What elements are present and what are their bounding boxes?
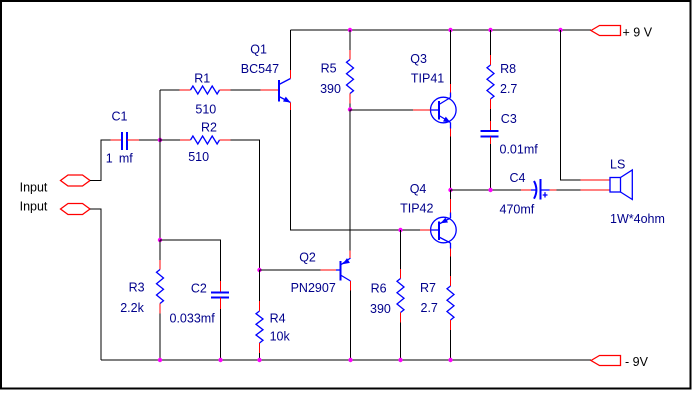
transistor Q3 <box>410 52 456 136</box>
wire node to Q3 base <box>350 109 413 111</box>
junction output node at Q3/Q4 <box>448 188 452 192</box>
wire node down to Q2 emitter <box>349 110 351 251</box>
svg-text:C1: C1 <box>112 110 128 124</box>
svg-text:BC547: BC547 <box>241 62 279 76</box>
svg-text:Q1: Q1 <box>250 42 267 56</box>
capacitor C4 <box>500 171 557 217</box>
wire input1 to C1 <box>90 140 111 181</box>
svg-text:R4: R4 <box>270 312 286 326</box>
svg-text:510: 510 <box>188 150 209 164</box>
svg-text:Input: Input <box>20 200 48 214</box>
svg-text:LS: LS <box>610 158 625 172</box>
junction R7 bottom on -9V rail <box>448 358 452 362</box>
svg-text:PN2907: PN2907 <box>291 281 336 295</box>
svg-text:R1: R1 <box>194 72 210 86</box>
junction C3 bottom on output rail <box>488 188 492 192</box>
svg-text:Input: Input <box>20 181 48 195</box>
svg-text:Q3: Q3 <box>410 52 427 66</box>
resistor R2 <box>160 121 231 165</box>
wire input2 to -9V rail <box>90 209 101 360</box>
capacitor C1 <box>106 110 139 166</box>
junction R3 bottom on -9V rail <box>158 358 162 362</box>
capacitor C3 <box>481 112 539 156</box>
wire Q1 emitter down and right to Q4 base <box>291 110 421 230</box>
svg-text:TIP42: TIP42 <box>400 201 433 215</box>
wire Q4 emitter up to output node <box>450 190 452 199</box>
svg-text:1W*4ohm: 1W*4ohm <box>610 212 665 226</box>
wire C1 to node A <box>139 139 160 141</box>
wire -9V bottom rail <box>101 359 591 361</box>
power flag -9V <box>591 355 649 369</box>
svg-text:1 mf: 1 mf <box>106 151 134 165</box>
node A junction (C1/R1/R2/R3 column) <box>158 138 162 142</box>
wire output rail to C4 <box>451 189 522 191</box>
junction R6 bottom on -9V rail <box>398 358 402 362</box>
resistor R1 <box>160 72 231 117</box>
junction node A2 (R3/C2 branch) <box>158 238 162 242</box>
junction C2 bottom on -9V rail <box>218 358 222 362</box>
wire C3 to output rail <box>490 144 492 190</box>
capacitor C2 <box>170 281 230 325</box>
svg-text:Q2: Q2 <box>299 251 316 265</box>
svg-text:R8: R8 <box>500 62 516 76</box>
input port flag 1 <box>20 175 90 195</box>
wire R7 to -9V rail <box>450 330 452 360</box>
svg-text:10k: 10k <box>270 330 291 344</box>
resistor R3 <box>120 240 163 315</box>
resistor R7 <box>420 276 454 330</box>
svg-text:R5: R5 <box>321 62 337 76</box>
wire C2 to -9V rail <box>220 309 222 360</box>
svg-text:- 9V: - 9V <box>625 355 649 369</box>
junction R6 top on Q4 base wire <box>398 228 402 232</box>
speaker LS <box>610 158 665 226</box>
input port flag 2 <box>20 200 90 215</box>
wire +9V rail down to speaker top lead <box>561 30 581 180</box>
wire Q3 emitter to output node <box>450 137 452 191</box>
wire R8 to C3 <box>490 109 492 121</box>
svg-text:R7: R7 <box>420 281 436 295</box>
junction Q3 collector on +9V rail <box>448 28 452 32</box>
wire R2 right to node B <box>231 140 260 270</box>
wire Q2 collector to -9V rail <box>350 291 352 361</box>
wire node B to Q2 base <box>260 269 321 271</box>
wire +9V rail to Q3 collector <box>450 30 452 84</box>
svg-text:+ 9 V: + 9 V <box>623 26 653 40</box>
wire +9V top rail <box>291 29 592 31</box>
resistor R6 <box>370 230 404 323</box>
wire node A2 to C2 top <box>160 240 221 281</box>
svg-text:390: 390 <box>320 82 341 96</box>
junction R4 bottom on -9V rail <box>257 358 261 362</box>
speaker lead bottom (red) <box>581 189 611 191</box>
wire node A vertical column x=160 <box>159 90 161 240</box>
junction R8 top on +9V rail <box>488 28 492 32</box>
wire R4 to -9V rail <box>259 353 261 360</box>
wire Q4 collector to R7 <box>450 257 452 277</box>
svg-text:390: 390 <box>370 302 391 316</box>
wire R5 bottom to junction <box>349 104 351 110</box>
junction R5 top on +9V rail <box>348 28 352 32</box>
svg-text:2.7: 2.7 <box>421 301 438 315</box>
junction R5 bottom node <box>348 107 352 111</box>
svg-text:Q4: Q4 <box>410 182 427 196</box>
svg-text:2.7: 2.7 <box>500 82 517 96</box>
svg-text:2.2k: 2.2k <box>120 301 144 315</box>
speaker lead top (red) <box>581 179 611 181</box>
svg-text:C4: C4 <box>510 171 526 185</box>
wire R1 to Q1 base <box>231 89 261 91</box>
resistor R8 <box>487 30 517 109</box>
wire Q1 collector to +9V rail <box>290 30 292 70</box>
resistor R5 <box>320 30 353 104</box>
svg-text:R2: R2 <box>201 121 217 135</box>
svg-text:470mf: 470mf <box>500 203 535 217</box>
junction speaker column on +9V rail <box>558 28 562 32</box>
svg-text:0.033mf: 0.033mf <box>170 311 216 325</box>
svg-text:C2: C2 <box>191 282 207 296</box>
svg-text:0.01mf: 0.01mf <box>500 142 539 156</box>
svg-text:R6: R6 <box>371 282 387 296</box>
resistor R4 <box>256 270 291 353</box>
svg-text:R3: R3 <box>129 281 145 295</box>
transistor Q4 <box>400 182 456 257</box>
transistor Q1 <box>241 42 291 110</box>
wire R3 to -9V rail <box>159 314 161 361</box>
transistor Q2 <box>291 251 351 296</box>
junction Q2 collector on -9V rail <box>348 358 352 362</box>
junction node B (R2/R4/Q2 base) <box>257 268 261 272</box>
power flag +9V <box>591 26 653 40</box>
wire R6 to -9V rail <box>400 323 402 361</box>
svg-text:510: 510 <box>195 102 216 116</box>
svg-text:TIP41: TIP41 <box>411 71 444 85</box>
svg-text:C3: C3 <box>501 112 517 126</box>
wire C4 to speaker bottom lead <box>557 189 581 191</box>
